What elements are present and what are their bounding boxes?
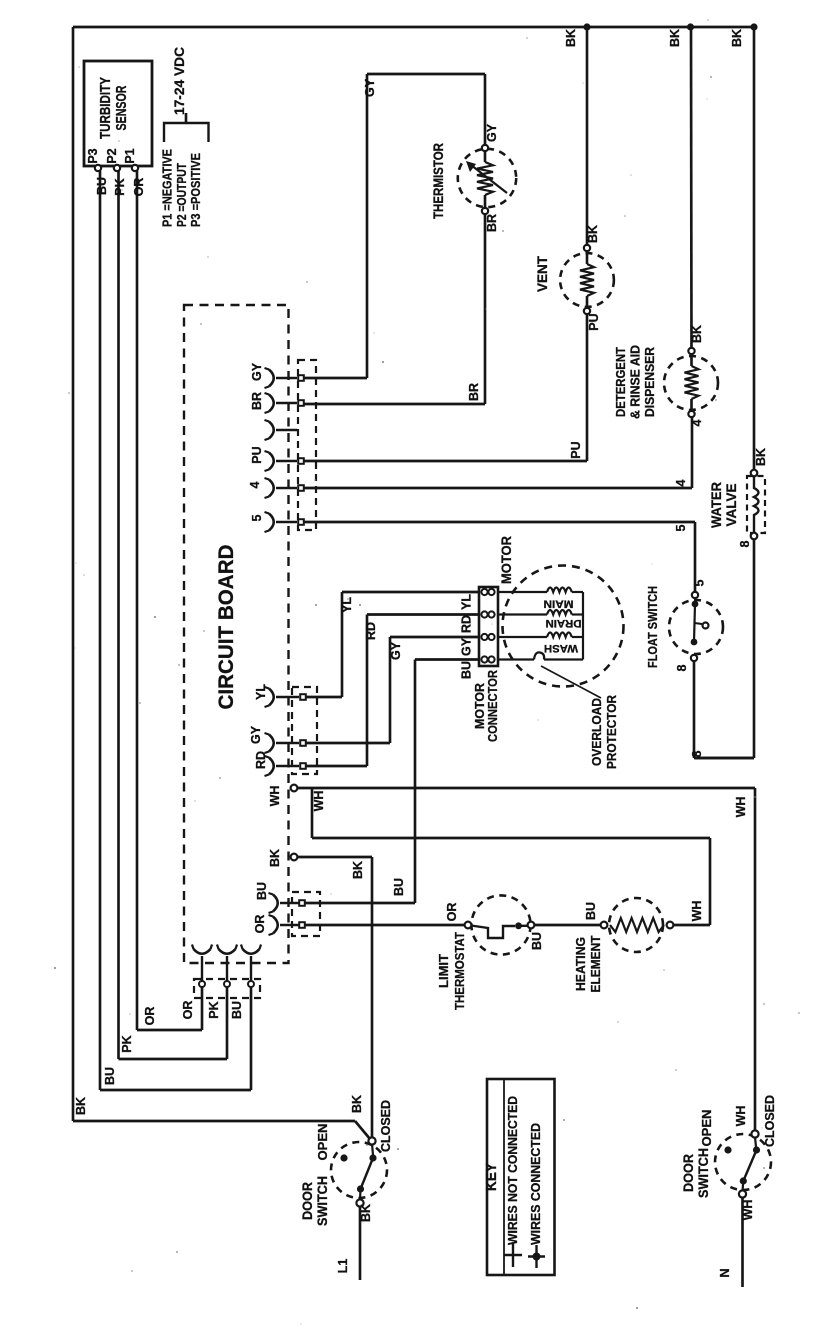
svg-text:CONNECTOR: CONNECTOR xyxy=(486,670,500,742)
svg-text:P3 =POSITIVE: P3 =POSITIVE xyxy=(189,153,203,227)
svg-text:P2: P2 xyxy=(105,148,119,163)
svg-text:& RINSE AID: & RINSE AID xyxy=(629,345,643,419)
svg-text:WH: WH xyxy=(312,791,326,812)
svg-text:ELEMENT: ELEMENT xyxy=(588,935,603,992)
svg-text:CLOSED: CLOSED xyxy=(763,1095,777,1147)
svg-text:GY: GY xyxy=(363,78,377,97)
svg-text:P1 =NEGATIVE: P1 =NEGATIVE xyxy=(161,149,175,227)
svg-text:LIMIT: LIMIT xyxy=(436,954,451,988)
svg-text:WH: WH xyxy=(734,797,748,818)
svg-text:BU: BU xyxy=(460,661,474,679)
svg-text:PK: PK xyxy=(113,178,127,195)
svg-text:WH: WH xyxy=(690,901,704,922)
svg-text:MOTOR: MOTOR xyxy=(473,683,487,729)
svg-text:BU: BU xyxy=(230,1001,244,1019)
svg-text:TURBIDITY: TURBIDITY xyxy=(97,77,114,139)
svg-text:BR: BR xyxy=(467,383,481,401)
svg-text:PU: PU xyxy=(569,441,583,458)
svg-text:5: 5 xyxy=(250,514,264,521)
svg-text:BK: BK xyxy=(74,1097,88,1115)
svg-text:HEATING: HEATING xyxy=(573,937,588,991)
svg-text:WIRES NOT CONNECTED: WIRES NOT CONNECTED xyxy=(506,1096,520,1245)
svg-text:MAIN: MAIN xyxy=(543,598,573,610)
svg-text:WASH: WASH xyxy=(544,642,578,654)
svg-text:P1: P1 xyxy=(123,148,137,163)
svg-text:BU: BU xyxy=(95,177,109,195)
svg-text:FLOAT SWITCH: FLOAT SWITCH xyxy=(645,586,660,668)
svg-text:CIRCUIT BOARD: CIRCUIT BOARD xyxy=(215,545,238,710)
svg-text:OR: OR xyxy=(445,903,459,922)
svg-text:BK: BK xyxy=(668,29,682,47)
svg-text:PU: PU xyxy=(587,313,601,330)
svg-text:BU: BU xyxy=(584,902,598,920)
svg-text:OR: OR xyxy=(181,1001,195,1020)
svg-text:DOOR: DOOR xyxy=(681,1154,696,1192)
svg-text:BK: BK xyxy=(564,29,578,47)
svg-text:4: 4 xyxy=(690,419,704,426)
svg-text:17-24 VDC: 17-24 VDC xyxy=(171,47,187,115)
svg-text:SENSOR: SENSOR xyxy=(113,85,130,130)
svg-text:4: 4 xyxy=(248,481,262,488)
svg-text:WATER: WATER xyxy=(709,482,724,528)
svg-text:VENT: VENT xyxy=(535,255,550,292)
svg-text:CLOSED: CLOSED xyxy=(379,1100,393,1152)
svg-text:DISPENSER: DISPENSER xyxy=(643,347,657,417)
svg-text:BK: BK xyxy=(351,861,365,879)
svg-text:GY: GY xyxy=(460,637,474,656)
svg-text:WH: WH xyxy=(268,786,282,807)
svg-text:BR: BR xyxy=(250,392,264,410)
svg-text:5: 5 xyxy=(693,579,707,586)
svg-text:DETERGENT: DETERGENT xyxy=(614,347,628,417)
svg-text:YL: YL xyxy=(460,594,474,610)
svg-text:GY: GY xyxy=(485,123,499,142)
svg-text:N: N xyxy=(718,1268,732,1277)
svg-text:BU: BU xyxy=(530,932,544,950)
svg-text:4: 4 xyxy=(674,479,688,486)
svg-text:BR: BR xyxy=(485,214,499,232)
svg-text:RD: RD xyxy=(254,751,268,769)
svg-text:P3: P3 xyxy=(86,148,100,163)
svg-text:VALVE: VALVE xyxy=(724,484,739,527)
svg-text:PK: PK xyxy=(207,1001,221,1018)
svg-text:8: 8 xyxy=(675,664,689,671)
svg-text:WH: WH xyxy=(734,1106,748,1127)
svg-text:DOOR: DOOR xyxy=(300,1182,315,1220)
svg-text:OVERLOAD: OVERLOAD xyxy=(589,698,604,766)
svg-text:GY: GY xyxy=(389,641,403,660)
svg-text:WH: WH xyxy=(741,1200,755,1221)
svg-text:BK: BK xyxy=(730,29,744,47)
svg-text:OPEN: OPEN xyxy=(700,1110,714,1147)
svg-text:8: 8 xyxy=(690,750,704,757)
svg-text:BK: BK xyxy=(754,448,768,466)
svg-text:GY: GY xyxy=(250,362,264,381)
svg-text:OPEN: OPEN xyxy=(316,1124,330,1161)
svg-text:PROTECTOR: PROTECTOR xyxy=(604,694,619,769)
svg-text:P2 =OUTPUT: P2 =OUTPUT xyxy=(175,163,189,227)
svg-text:OR: OR xyxy=(253,915,267,934)
svg-text:THERMOSTAT: THERMOSTAT xyxy=(452,932,467,1010)
svg-text:YL: YL xyxy=(254,684,268,700)
svg-text:MOTOR: MOTOR xyxy=(499,536,514,584)
svg-text:8: 8 xyxy=(738,540,752,547)
svg-text:L1: L1 xyxy=(336,1259,350,1274)
svg-text:PU: PU xyxy=(250,446,264,463)
svg-text:GY: GY xyxy=(249,725,263,744)
svg-text:RD: RD xyxy=(460,615,474,633)
svg-text:BU: BU xyxy=(255,882,269,900)
svg-text:BK: BK xyxy=(586,225,600,243)
svg-text:5: 5 xyxy=(674,524,688,531)
svg-text:WIRES CONNECTED: WIRES CONNECTED xyxy=(529,1123,543,1245)
svg-text:BU: BU xyxy=(392,878,406,896)
svg-text:THERMISTOR: THERMISTOR xyxy=(431,143,446,219)
svg-text:OR: OR xyxy=(143,1007,157,1026)
svg-text:BK: BK xyxy=(359,1204,373,1222)
svg-text:BK: BK xyxy=(268,849,282,867)
svg-text:KEY: KEY xyxy=(483,1163,500,1191)
svg-text:OR: OR xyxy=(132,178,146,197)
svg-text:RD: RD xyxy=(364,622,378,640)
svg-text:SWITCH: SWITCH xyxy=(696,1148,711,1198)
svg-text:YL: YL xyxy=(340,597,354,613)
svg-text:BK: BK xyxy=(690,325,704,343)
svg-text:DRAIN: DRAIN xyxy=(545,617,581,629)
svg-text:BK: BK xyxy=(350,1095,364,1113)
svg-text:BU: BU xyxy=(103,1067,117,1085)
svg-text:SWITCH: SWITCH xyxy=(315,1176,330,1226)
svg-text:PK: PK xyxy=(120,1035,134,1052)
